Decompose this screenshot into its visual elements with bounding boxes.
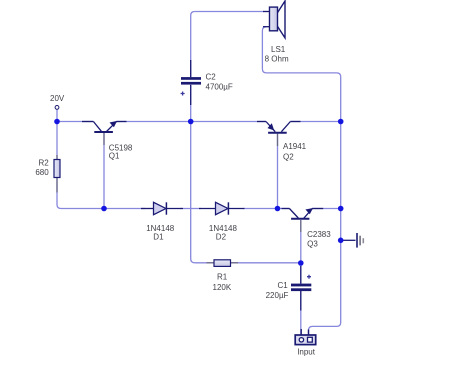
svg-text:C2: C2 [206, 73, 217, 82]
svg-text:20V: 20V [50, 94, 65, 103]
svg-text:C2383: C2383 [307, 230, 331, 239]
svg-text:R2: R2 [38, 159, 49, 168]
svg-text:1N4148: 1N4148 [146, 224, 175, 233]
svg-text:120K: 120K [213, 283, 232, 292]
svg-text:D1: D1 [153, 233, 164, 242]
svg-text:680: 680 [35, 168, 49, 177]
svg-text:1N4148: 1N4148 [209, 224, 238, 233]
svg-text:4700µF: 4700µF [206, 82, 233, 91]
svg-text:R1: R1 [217, 272, 228, 281]
svg-text:C1: C1 [278, 281, 289, 290]
svg-text:Q3: Q3 [307, 240, 318, 249]
svg-text:8 Ohm: 8 Ohm [265, 55, 289, 64]
svg-text:LS1: LS1 [271, 45, 286, 54]
svg-text:220µF: 220µF [266, 291, 289, 300]
svg-text:D2: D2 [216, 233, 227, 242]
svg-text:Q2: Q2 [283, 152, 294, 161]
svg-text:Q1: Q1 [109, 151, 120, 160]
svg-text:Input: Input [297, 347, 316, 356]
svg-text:A1941: A1941 [283, 142, 307, 151]
